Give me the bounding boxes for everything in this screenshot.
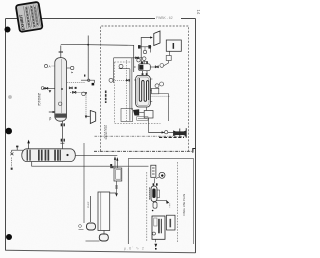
arrowhead down bbox=[85, 116, 87, 119]
tank top right riser bbox=[110, 192, 117, 194]
dashed vertical x147 bbox=[146, 172, 148, 242]
pot outlet line bbox=[150, 66, 158, 68]
small pump box bbox=[114, 168, 122, 181]
node black square bbox=[92, 83, 95, 86]
dashed signal y83 bbox=[67, 82, 86, 84]
dashes below valve bbox=[11, 158, 13, 168]
junction dot bbox=[85, 92, 87, 94]
valve on y92 bbox=[73, 91, 76, 93]
column bottoms line bbox=[61, 121, 63, 149]
condensate pot bbox=[138, 64, 150, 71]
tray letter circle A bbox=[61, 88, 63, 90]
bottom pump pill bbox=[99, 234, 108, 241]
cross line with valve blobs bbox=[139, 46, 151, 48]
flare flag connector bbox=[154, 31, 160, 46]
tank bottom pipe bbox=[103, 231, 105, 235]
border frame left line bbox=[5, 19, 7, 251]
punch hole 2 (faint) bbox=[8, 95, 12, 99]
svg-text:RELIEF HDR: RELIEF HDR bbox=[105, 125, 108, 139]
misc nozzle ticks bbox=[134, 79, 152, 102]
discharge line y133 bbox=[148, 118, 150, 133]
dark down arrow glyph bbox=[154, 244, 157, 248]
punch hole 4 bbox=[6, 234, 12, 240]
wire horizontal y80 bbox=[81, 80, 94, 83]
corner mark bbox=[193, 149, 196, 153]
tank left standpipe bbox=[89, 196, 91, 222]
svg-text:β: β bbox=[49, 116, 51, 120]
border frame right line bbox=[195, 19, 197, 254]
stub bbox=[67, 67, 71, 69]
svg-text:FWBK - 62: FWBK - 62 bbox=[156, 16, 173, 20]
junction circle bbox=[88, 79, 90, 81]
exchanger top nozzles bbox=[143, 71, 147, 76]
leader bbox=[52, 65, 55, 67]
drum outlet line to right bbox=[32, 161, 149, 166]
heavy dashes under pump row bbox=[159, 136, 184, 138]
svg-text:FINAL USE PLAN: FINAL USE PLAN bbox=[182, 194, 186, 216]
column V-1 shell bbox=[55, 58, 67, 122]
equipment label plate bbox=[137, 117, 148, 121]
lower element bbox=[153, 202, 157, 208]
valve blobs on bottoms line bbox=[61, 123, 62, 126]
top connections dark bbox=[153, 183, 155, 185]
utility box D bbox=[166, 40, 181, 51]
diagonal leader bbox=[156, 177, 159, 179]
drum cap outlet line bbox=[75, 154, 117, 156]
feed line 1 with valve bbox=[43, 87, 55, 89]
overhead vapor line bbox=[61, 44, 136, 72]
flag connector bottoms bbox=[90, 111, 95, 124]
valve on y83 bbox=[69, 87, 72, 89]
left pump pill bbox=[87, 223, 96, 230]
side tube bbox=[157, 190, 160, 198]
filter vessel pill bbox=[151, 186, 157, 202]
pipe y68.7 bbox=[119, 68, 130, 70]
drum level dot bbox=[66, 154, 68, 156]
punch hole 3 bbox=[5, 128, 12, 135]
drum baffle stripes bbox=[27, 150, 61, 161]
long vertical pipe x128 bbox=[127, 168, 129, 244]
tray letter circle B bbox=[59, 102, 62, 105]
drum top tee bbox=[60, 142, 64, 144]
svg-text:TO FLARE: TO FLARE bbox=[37, 93, 41, 106]
instrument circle left of column bbox=[44, 64, 47, 67]
dashed signal bbox=[150, 95, 169, 97]
instrument circle with wedge bbox=[159, 172, 165, 178]
label text vertical near pill bbox=[149, 188, 151, 201]
left pipe risers bbox=[126, 60, 128, 121]
instrument circle below cross line bbox=[143, 50, 146, 53]
small arrow mark bbox=[72, 72, 74, 74]
instrument circle on outlet bbox=[160, 64, 164, 68]
svg-text:μ.6ʼ ∿ 2: μ.6ʼ ∿ 2 bbox=[124, 245, 145, 250]
svg-text:A: A bbox=[49, 65, 51, 69]
dashed drop x85.5 bbox=[85, 92, 87, 116]
dashed to valve bbox=[113, 79, 126, 81]
dashed vertical x177.5 bbox=[177, 162, 179, 242]
control panel box2 bbox=[152, 216, 165, 239]
feed small circle bbox=[41, 87, 44, 90]
outlet line and valve bbox=[157, 200, 166, 202]
dash-dot limit line y151 bbox=[94, 148, 193, 151]
drain tick bbox=[154, 239, 156, 242]
border frame top line bbox=[6, 18, 196, 20]
valve on pot outlet bbox=[155, 66, 158, 68]
svg-text:PUMP: PUMP bbox=[88, 201, 90, 208]
right nozzle small box bbox=[152, 88, 159, 94]
arrow line to flag bbox=[141, 38, 151, 64]
drum left inlet bbox=[10, 147, 23, 156]
exchanger E-1 shell bbox=[136, 75, 151, 107]
control valve bbox=[126, 79, 129, 81]
dark label strip x105.7 bbox=[105, 91, 107, 104]
feed line 2 with arrow bbox=[49, 111, 55, 113]
line to right and down bbox=[159, 94, 169, 122]
drum vent arrow bbox=[28, 143, 30, 149]
svg-text:14: 14 bbox=[196, 10, 200, 15]
drop pipe below bbox=[116, 181, 118, 193]
node dot bbox=[152, 210, 154, 212]
outer dashed enclosure bbox=[101, 26, 189, 151]
dome nozzle blobs bbox=[142, 73, 144, 75]
instrument circles right of exchanger bbox=[155, 84, 159, 88]
valve block mark bbox=[75, 87, 77, 89]
panel box3 bbox=[167, 215, 176, 230]
skid box1 bbox=[151, 165, 156, 177]
instrument circle FR bbox=[109, 78, 113, 82]
instrument circle right of column bbox=[71, 66, 74, 69]
package box outline bbox=[128, 159, 193, 244]
arrow into flag bbox=[85, 115, 90, 117]
punch hole 1 bbox=[5, 27, 11, 33]
small drain marks bbox=[79, 225, 82, 228]
label tick bbox=[84, 75, 85, 77]
bottom dark pump blob bbox=[133, 109, 139, 115]
column top nozzle bbox=[59, 46, 63, 58]
U-tube bundle bbox=[139, 78, 148, 101]
dark block pump P bbox=[173, 130, 186, 136]
pipe y57 bbox=[114, 57, 143, 59]
vent valve on riser bbox=[136, 57, 139, 59]
pump house box bbox=[121, 109, 133, 122]
dash-dot limit line y138 bbox=[95, 135, 187, 137]
wire vertical x88 bbox=[87, 36, 89, 81]
drum D-1 shell bbox=[22, 149, 76, 162]
small square under box D bbox=[166, 56, 171, 61]
border frame bottom line bbox=[6, 250, 196, 253]
small dark mark bbox=[49, 90, 52, 92]
pump box right bbox=[144, 111, 153, 119]
junction node on overhead line bbox=[87, 44, 89, 46]
instrument circle on y92 bbox=[82, 92, 86, 96]
tank T-1 bbox=[98, 192, 110, 231]
instrument circle bbox=[119, 64, 123, 68]
inner dashed box bbox=[115, 62, 161, 124]
exhibit stamp bbox=[16, 2, 43, 32]
instrument circle beside valve bbox=[142, 57, 146, 61]
scan noise overlay bbox=[6, 19, 196, 251]
dashed signal y92 bbox=[70, 91, 86, 93]
pot top fittings bbox=[137, 59, 140, 62]
riser arrows pair bbox=[115, 159, 117, 169]
suction line left bbox=[86, 240, 100, 242]
drop from box D bbox=[169, 51, 171, 55]
inlet valve blobs bbox=[110, 164, 112, 166]
drop leg x84 bbox=[83, 143, 85, 223]
